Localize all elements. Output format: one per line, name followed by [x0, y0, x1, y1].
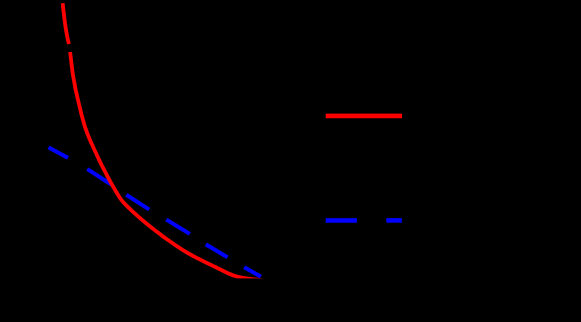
- upper segment: [63, 3, 69, 44]
- main segment: [70, 52, 263, 280]
- red curve: [63, 3, 263, 280]
- legend: red solid sample: [326, 114, 402, 119]
- blue dashed line (chord): [49, 147, 261, 276]
- legend: blue dashed sample: [326, 218, 402, 223]
